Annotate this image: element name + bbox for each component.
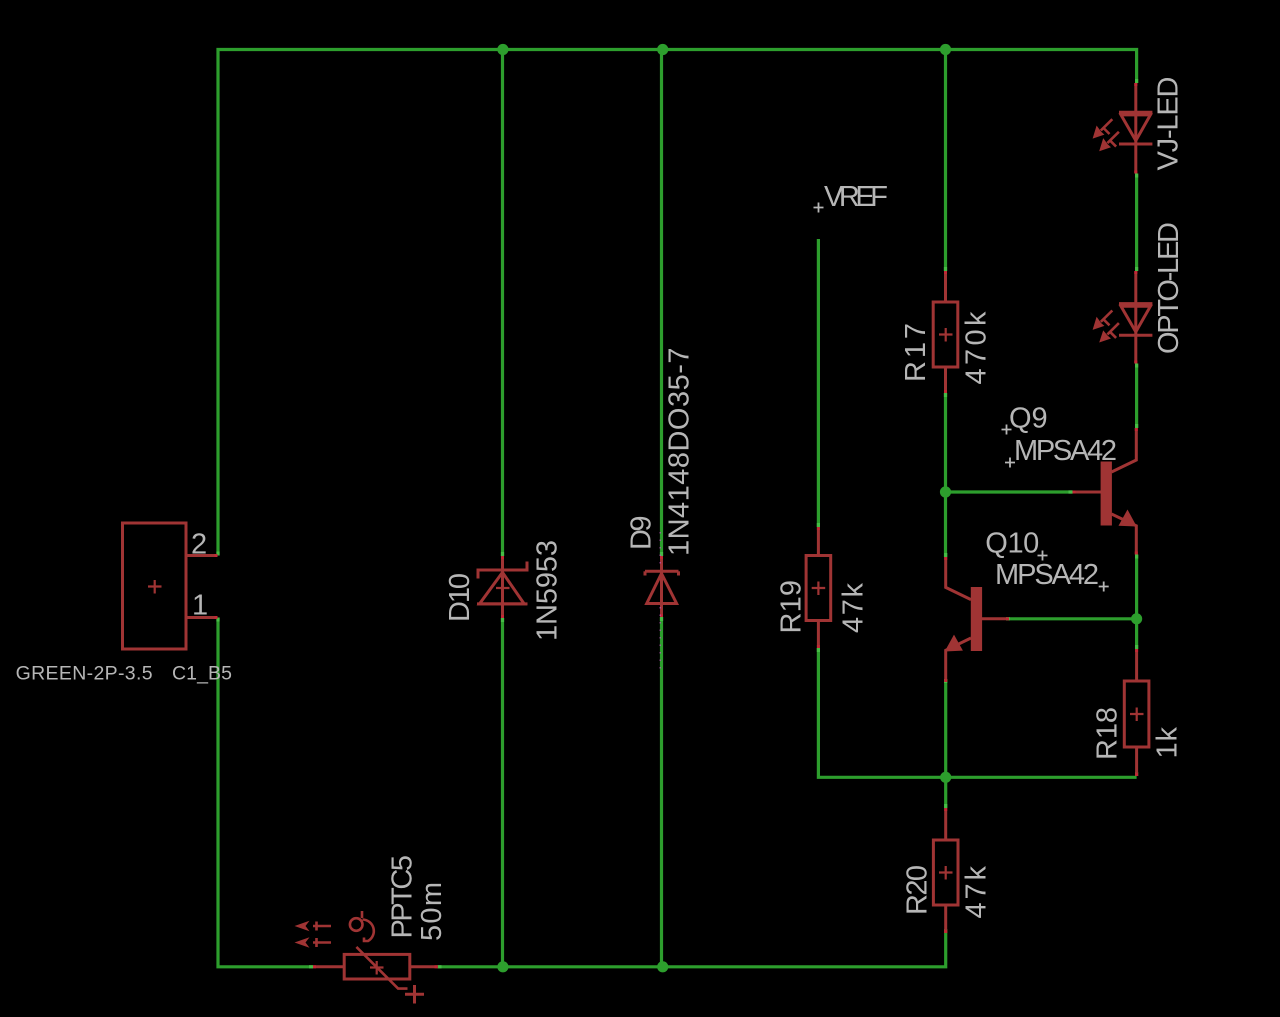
svg-text:PPTC5: PPTC5 bbox=[387, 855, 419, 939]
svg-text:47k: 47k bbox=[961, 866, 993, 919]
svg-text:R18: R18 bbox=[1092, 707, 1124, 760]
svg-text:OPTO-LED: OPTO-LED bbox=[1153, 222, 1185, 354]
svg-text:VJ-LED: VJ-LED bbox=[1153, 77, 1185, 171]
svg-text:GREEN-2P-3.5: GREEN-2P-3.5 bbox=[16, 663, 153, 685]
svg-text:MPSA42: MPSA42 bbox=[995, 559, 1099, 591]
svg-text:R20: R20 bbox=[902, 865, 934, 915]
svg-text:1k: 1k bbox=[1152, 727, 1184, 759]
svg-text:VREF: VREF bbox=[824, 181, 888, 213]
svg-text:Q9: Q9 bbox=[1009, 403, 1048, 435]
svg-text:R19: R19 bbox=[776, 580, 808, 634]
svg-text:D10: D10 bbox=[444, 573, 476, 622]
svg-text:MPSA42: MPSA42 bbox=[1014, 435, 1117, 467]
svg-text:2: 2 bbox=[191, 529, 207, 561]
svg-text:1N5953: 1N5953 bbox=[532, 540, 564, 641]
svg-text:R17: R17 bbox=[900, 323, 932, 382]
svg-text:1: 1 bbox=[192, 590, 208, 622]
svg-text:Q10: Q10 bbox=[985, 528, 1039, 560]
svg-text:1N4148DO35-7: 1N4148DO35-7 bbox=[664, 348, 696, 557]
svg-text:50m: 50m bbox=[416, 882, 448, 941]
svg-text:C1_B5: C1_B5 bbox=[172, 663, 232, 685]
svg-text:D9: D9 bbox=[626, 516, 658, 551]
svg-text:47k: 47k bbox=[838, 583, 870, 634]
